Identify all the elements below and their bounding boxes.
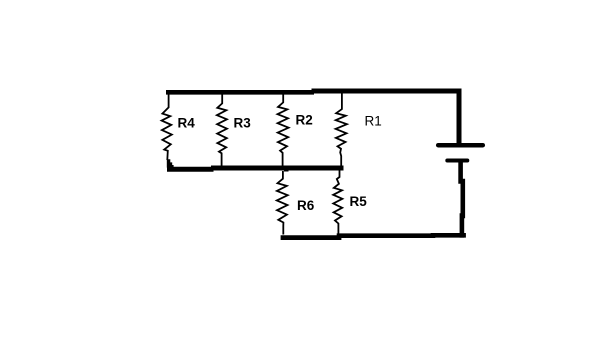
node junction bump at R2/R6	[284, 166, 289, 171]
label R5	[350, 194, 368, 209]
node junction blob at R4 bottom	[167, 159, 174, 167]
resistor R1	[336, 94, 347, 167]
resistor R2	[278, 95, 289, 167]
wire bottom segment right	[433, 233, 464, 238]
label R2	[296, 113, 313, 128]
label R4	[178, 116, 196, 131]
wire top segment right	[314, 89, 459, 94]
wire bottom segment middle	[339, 233, 433, 238]
svg-text:R2: R2	[296, 113, 313, 128]
wire right vertical lower	[461, 161, 463, 235]
label R1	[365, 114, 382, 129]
wire middle lower fringe	[296, 169, 332, 171]
svg-text:R5: R5	[350, 194, 368, 209]
wire top segment left	[166, 90, 314, 95]
wire middle segment right	[211, 166, 344, 171]
battery B1 bottom plate	[447, 159, 467, 163]
svg-text:R6: R6	[297, 198, 315, 213]
svg-text:R3: R3	[234, 116, 252, 131]
resistor R5	[333, 171, 342, 235]
resistor R6	[277, 171, 288, 235]
resistor R3	[217, 95, 227, 168]
label R3	[234, 116, 252, 131]
node junction at R1/R5 and middle wire end	[338, 166, 344, 170]
svg-text:R4: R4	[178, 116, 196, 131]
label R6	[297, 198, 315, 213]
wire middle segment left	[170, 167, 212, 172]
resistor R4	[162, 95, 172, 161]
svg-text:R1: R1	[365, 114, 382, 129]
wire bottom segment left	[283, 235, 339, 240]
wire right vertical upper	[457, 91, 462, 143]
battery B1 top plate	[438, 143, 483, 148]
